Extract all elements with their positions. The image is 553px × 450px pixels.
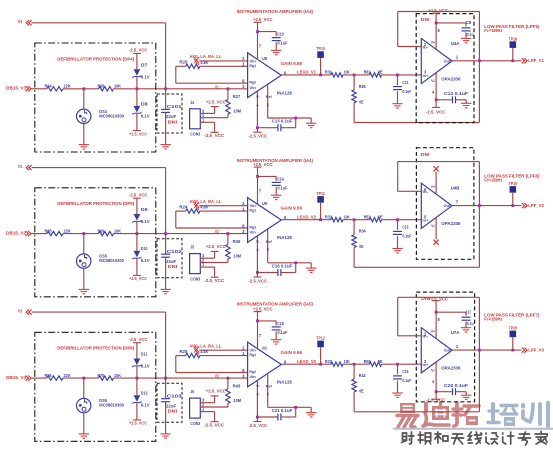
svg-text:DNI: DNI [168,264,178,269]
svg-text:V2: V2 [215,229,219,234]
svg-text:Out: Out [444,348,451,353]
svg-text:DNI: DNI [421,152,430,157]
svg-text:U4A: U4A [451,41,460,46]
svg-text:INSTRUMENTATION AMPLIFIER (IA4: INSTRUMENTATION AMPLIFIER (IA4) [237,158,314,163]
svg-text:AVG_LA_RA_LL: AVG_LA_RA_LL [190,54,222,59]
svg-text:22K: 22K [64,373,72,378]
svg-text:C19: C19 [402,369,408,374]
svg-text:AVG_LA_RA_LL: AVG_LA_RA_LL [190,199,222,204]
svg-text:Ref: Ref [266,239,273,244]
svg-text:U8: U8 [262,56,267,61]
svg-text:GAIN 9.56: GAIN 9.56 [281,61,303,66]
svg-text:R68: R68 [98,84,105,89]
svg-text:22K: 22K [64,228,72,233]
svg-text:R31: R31 [325,70,332,75]
svg-text:6.1V: 6.1V [141,113,150,118]
svg-text:AVG_LA_RA_LL: AVG_LA_RA_LL [190,344,222,349]
svg-text:DEFIBRILLATOR PROTECTION (DP5): DEFIBRILLATOR PROTECTION (DP5) [57,201,134,206]
svg-text:R34: R34 [359,229,366,234]
svg-text:MC08010300: MC08010300 [99,113,124,118]
svg-text:Fc=159Hz: Fc=159Hz [484,178,503,183]
svg-text:10K: 10K [114,373,122,378]
svg-text:R52: R52 [364,214,371,219]
svg-text:0E: 0E [378,70,383,75]
svg-text:10K: 10K [114,84,122,89]
svg-text:10K: 10K [344,70,350,75]
svg-text:C101: C101 [167,104,183,109]
svg-text:+2.5_VCC: +2.5_VCC [253,17,273,22]
svg-text:6.1V: 6.1V [141,364,150,369]
svg-text:LEAD_V1: LEAD_V1 [297,70,316,75]
svg-text:J4: J4 [190,100,194,105]
svg-text:6.1V: 6.1V [141,258,150,263]
svg-text:R65: R65 [45,228,53,233]
svg-text:C11: C11 [402,80,408,85]
svg-text:-2.5_VCC: -2.5_VCC [204,423,225,428]
svg-text:U9: U9 [262,201,267,206]
svg-text:Out: Out [444,203,451,208]
svg-text:TP18: TP18 [509,36,518,41]
svg-text:INA128: INA128 [277,90,292,95]
svg-text:-2.5_VCC: -2.5_VCC [249,278,268,283]
svg-text:Vin: Vin [249,85,256,90]
svg-text:TP19: TP19 [509,181,518,186]
svg-text:4.8K: 4.8K [200,349,208,354]
svg-text:+2.5_VCC: +2.5_VCC [253,307,273,312]
svg-text:-2.5_VCC: -2.5_VCC [129,337,148,342]
svg-text:V+: V+ [431,329,436,334]
svg-text:V+: V+ [431,39,436,44]
svg-text:Rg1: Rg1 [249,352,256,357]
svg-text:V-: V- [431,367,436,372]
svg-text:V2: V2 [18,164,23,169]
svg-text:0.1uF: 0.1uF [278,330,288,335]
svg-text:R36: R36 [233,239,241,244]
svg-text:-2.5_VCC: -2.5_VCC [426,110,446,115]
svg-text:+2.5_VCC: +2.5_VCC [129,276,148,281]
svg-text:0.1u: 0.1u [467,32,474,37]
svg-text:DB15_V1: DB15_V1 [6,86,26,91]
svg-text:V-: V- [431,223,436,228]
svg-text:4.8K: 4.8K [200,205,208,210]
svg-text:J6: J6 [190,389,194,394]
svg-text:10M: 10M [233,254,241,259]
svg-text:10M: 10M [233,109,241,114]
svg-text:10K: 10K [114,228,122,233]
svg-text:R26: R26 [359,84,366,89]
svg-text:6.1V: 6.1V [141,219,150,224]
svg-text:Ref: Ref [266,383,273,388]
svg-text:R58: R58 [364,359,371,364]
svg-text:V3: V3 [18,308,23,313]
svg-text:V1: V1 [18,19,23,24]
svg-text:0E: 0E [359,99,363,104]
svg-text:Fc=159Hz: Fc=159Hz [484,28,503,33]
svg-text:-2.5_VCC: -2.5_VCC [426,398,446,403]
svg-text:0.1uF: 0.1uF [402,89,411,94]
svg-text:10M: 10M [233,398,241,403]
svg-text:0E: 0E [378,214,383,219]
svg-text:DB15_V2: DB15_V2 [6,231,26,236]
svg-text:-2.5_VCC: -2.5_VCC [129,192,148,197]
svg-text:TP10: TP10 [316,46,325,51]
svg-text:C20 0.1uF: C20 0.1uF [444,383,468,388]
svg-text:0E: 0E [359,389,363,394]
svg-text:+2.5_VCC: +2.5_VCC [129,421,148,426]
svg-text:R64: R64 [45,84,53,89]
svg-text:C103: C103 [167,394,183,399]
svg-text:+2.5_VCC: +2.5_VCC [428,8,448,13]
svg-text:INSTRUMENTATION AMPLIFIER (IA5: INSTRUMENTATION AMPLIFIER (IA5) [237,302,314,307]
svg-text:-2.5_VCC: -2.5_VCC [249,423,268,428]
svg-text:OPA2336: OPA2336 [441,221,461,226]
svg-text:U10: U10 [262,345,267,350]
svg-text:INSTRUMENTATION AMPLIFIER (IA3: INSTRUMENTATION AMPLIFIER (IA3) [237,9,314,14]
svg-text:C16 0.1uF: C16 0.1uF [272,264,293,269]
svg-text:R61: R61 [364,70,371,75]
svg-text:R69: R69 [98,228,105,233]
svg-text:Vin: Vin [249,230,256,235]
svg-text:V1: V1 [215,84,219,89]
svg-text:D7: D7 [141,62,148,67]
svg-text:TP20: TP20 [509,326,518,331]
svg-text:0.1u: 0.1u [467,321,474,326]
svg-text:GAIN 9.56: GAIN 9.56 [281,350,303,355]
svg-text:6.1V: 6.1V [141,74,150,79]
svg-text:U7A: U7A [451,330,460,335]
svg-text:R24: R24 [179,204,187,209]
svg-text:0E: 0E [359,244,363,249]
svg-text:D8: D8 [141,101,148,106]
svg-text:C17: C17 [466,309,472,314]
svg-text:TP11: TP11 [316,191,325,196]
svg-text:D10: D10 [141,246,148,251]
svg-text:Out: Out [444,58,451,63]
svg-text:R33: R33 [325,214,332,219]
svg-text:10K: 10K [344,214,350,219]
svg-text:V+: V+ [431,184,436,189]
svg-text:TP12: TP12 [316,336,325,341]
svg-text:R20: R20 [179,60,187,65]
svg-text:CON3: CON3 [190,421,200,426]
svg-text:+2.5_VCC: +2.5_VCC [129,131,148,136]
svg-text:Rg1: Rg1 [249,63,256,68]
svg-text:LPF_V3: LPF_V3 [528,347,544,352]
svg-text:CON3: CON3 [190,277,200,282]
svg-text:R70: R70 [98,373,105,378]
svg-text:C21 0.1uF: C21 0.1uF [272,408,293,413]
svg-text:V3: V3 [215,374,219,379]
svg-text:LPF_V2: LPF_V2 [528,203,544,208]
svg-text:0E: 0E [378,359,383,364]
svg-text:DNI: DNI [421,17,430,22]
svg-text:R27: R27 [233,94,241,99]
svg-text:D9: D9 [141,207,148,212]
svg-text:C14: C14 [277,176,284,181]
svg-text:LEAD_V2: LEAD_V2 [297,215,316,220]
svg-text:D11: D11 [141,352,148,357]
svg-text:C18: C18 [277,321,284,326]
svg-text:C15: C15 [402,225,408,230]
svg-text:DB15_V3: DB15_V3 [6,375,26,380]
svg-text:4.8K: 4.8K [200,60,208,65]
svg-text:D12: D12 [141,391,148,396]
svg-text:0.1uF: 0.1uF [278,41,288,46]
svg-text:6.1V: 6.1V [141,403,150,408]
svg-text:Rg2: Rg2 [249,369,256,374]
svg-text:Fc=159Hz: Fc=159Hz [484,316,503,321]
svg-text:+2.5_VCC: +2.5_VCC [206,244,227,249]
svg-text:V-: V- [256,94,261,99]
svg-text:22K: 22K [64,84,72,89]
svg-text:MC08010300: MC08010300 [99,403,124,408]
svg-text:-2.5_VCC: -2.5_VCC [249,134,268,139]
svg-text:+2.5_VCC: +2.5_VCC [206,99,227,104]
svg-text:J5: J5 [190,245,194,250]
svg-text:0.1uF: 0.1uF [278,186,288,191]
svg-text:R37: R37 [325,359,332,364]
svg-text:C10: C10 [277,32,284,37]
svg-text:Rg2: Rg2 [249,224,256,229]
svg-text:R42: R42 [359,373,366,378]
svg-text:DEFIBRILLATOR PROTECTION (DP4): DEFIBRILLATOR PROTECTION (DP4) [57,56,134,61]
svg-text:DNI: DNI [168,119,178,124]
svg-text:LEAD_V3: LEAD_V3 [297,359,316,364]
svg-text:OPA2336: OPA2336 [441,76,461,81]
svg-text:V-: V- [256,239,261,244]
svg-text:INA128: INA128 [277,380,292,385]
svg-text:C102: C102 [167,249,183,254]
svg-text:GAIN 9.56: GAIN 9.56 [281,206,303,211]
svg-text:C13 0.1uF: C13 0.1uF [272,119,293,124]
svg-text:Rg2: Rg2 [249,80,256,85]
svg-text:Ref: Ref [266,94,273,99]
svg-text:0.1uF: 0.1uF [402,234,411,239]
svg-text:INA128: INA128 [277,235,292,240]
svg-text:DNI: DNI [168,409,178,414]
svg-text:OPA2336: OPA2336 [441,366,461,371]
svg-text:R28: R28 [179,349,187,354]
svg-text:C12 0.1uF: C12 0.1uF [444,91,468,96]
svg-text:DEFIBRILLATOR PROTECTION (DP6): DEFIBRILLATOR PROTECTION (DP6) [57,346,134,351]
svg-text:C9: C9 [466,20,472,25]
svg-text:+2.5_VCC: +2.5_VCC [206,389,227,394]
svg-text:-2.5_VCC: -2.5_VCC [204,278,225,283]
svg-text:V-: V- [431,78,436,83]
svg-text:-2.5_VCC: -2.5_VCC [129,48,148,53]
svg-text:0.1uF: 0.1uF [402,378,411,383]
svg-text:R66: R66 [45,373,53,378]
svg-text:R43: R43 [233,383,241,388]
svg-text:CON3: CON3 [190,132,200,137]
svg-text:10K: 10K [344,359,350,364]
svg-text:LPF_V1: LPF_V1 [528,58,544,63]
svg-text:+2.5_VCC: +2.5_VCC [253,162,273,167]
svg-text:MC08010300: MC08010300 [99,258,124,263]
svg-text:V-: V- [256,383,261,388]
svg-text:Vin: Vin [249,374,256,379]
svg-text:U4B: U4B [451,186,460,191]
svg-text:-2.5_VCC: -2.5_VCC [204,133,225,138]
svg-text:Rg1: Rg1 [249,208,256,213]
